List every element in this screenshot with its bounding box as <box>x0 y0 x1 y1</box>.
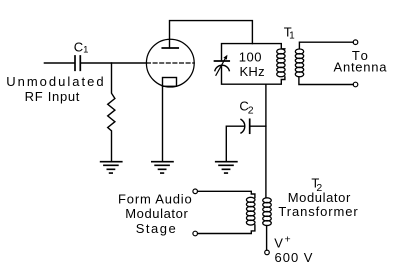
svg-text:T1: T1 <box>284 24 295 41</box>
svg-text:Modulator: Modulator <box>125 206 188 221</box>
svg-text:Transformer: Transformer <box>278 204 358 219</box>
svg-text:600 V: 600 V <box>275 250 314 265</box>
svg-text:C2: C2 <box>239 98 253 116</box>
svg-text:Modulator: Modulator <box>288 190 351 205</box>
svg-text:KHz: KHz <box>239 64 264 79</box>
svg-text:Stage: Stage <box>136 221 177 236</box>
svg-text:RF Input: RF Input <box>25 89 80 104</box>
svg-text:Form Audio: Form Audio <box>118 192 192 207</box>
svg-text:Unmodulated: Unmodulated <box>6 74 105 89</box>
svg-text:C1: C1 <box>74 39 89 55</box>
svg-text:V+: V+ <box>274 234 290 251</box>
svg-text:Antenna: Antenna <box>334 60 388 75</box>
svg-text:100: 100 <box>239 50 262 65</box>
